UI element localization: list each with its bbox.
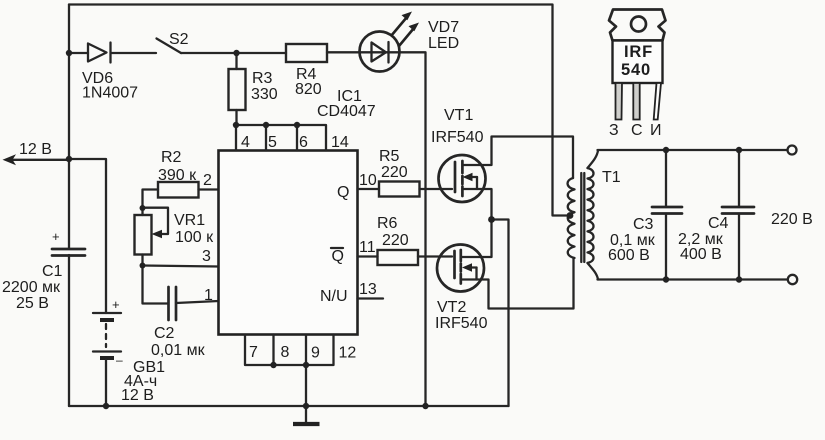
- svg-text:–: –: [116, 353, 123, 367]
- svg-text:C2: C2: [154, 325, 175, 342]
- svg-text:C1: C1: [42, 263, 63, 280]
- svg-text:S2: S2: [169, 31, 189, 48]
- svg-text:C4: C4: [708, 215, 729, 232]
- svg-text:12 В: 12 В: [19, 141, 52, 158]
- svg-text:220 В: 220 В: [771, 211, 813, 228]
- svg-text:С: С: [631, 122, 643, 139]
- svg-text:LED: LED: [428, 35, 459, 52]
- svg-text:10: 10: [359, 172, 377, 189]
- svg-text:1N4007: 1N4007: [82, 85, 138, 102]
- svg-text:IRF540: IRF540: [435, 315, 488, 332]
- svg-text:T1: T1: [602, 169, 621, 186]
- svg-text:7: 7: [249, 344, 258, 361]
- svg-text:11: 11: [359, 239, 376, 256]
- svg-text:330: 330: [251, 86, 278, 103]
- svg-text:100 к: 100 к: [175, 229, 214, 246]
- svg-text:5: 5: [268, 134, 277, 151]
- svg-text:220: 220: [382, 232, 409, 249]
- svg-text:13: 13: [359, 281, 377, 298]
- svg-text:C3: C3: [633, 216, 654, 233]
- svg-text:14: 14: [331, 134, 349, 151]
- svg-text:И: И: [650, 122, 662, 139]
- svg-text:600 В: 600 В: [608, 247, 650, 264]
- svg-text:540: 540: [621, 61, 651, 79]
- svg-text:R2: R2: [161, 149, 182, 166]
- svg-text:IRF: IRF: [624, 43, 653, 61]
- svg-text:Q: Q: [332, 248, 344, 265]
- svg-text:N/U: N/U: [320, 288, 348, 305]
- svg-text:390 к: 390 к: [158, 167, 197, 184]
- svg-text:CD4047: CD4047: [317, 103, 376, 120]
- svg-text:9: 9: [311, 345, 320, 362]
- svg-text:12: 12: [339, 345, 357, 362]
- svg-text:0,01 мк: 0,01 мк: [151, 342, 206, 359]
- svg-text:R6: R6: [377, 215, 398, 232]
- svg-text:12 В: 12 В: [121, 387, 154, 404]
- svg-text:VT2: VT2: [437, 299, 466, 316]
- svg-text:3: 3: [202, 248, 211, 265]
- svg-text:Q: Q: [337, 184, 349, 201]
- svg-text:+: +: [52, 229, 60, 244]
- svg-text:220: 220: [381, 164, 408, 181]
- svg-text:VD7: VD7: [428, 19, 459, 36]
- svg-text:6: 6: [299, 134, 308, 151]
- svg-text:820: 820: [295, 81, 322, 98]
- svg-text:4: 4: [241, 134, 250, 151]
- svg-text:R3: R3: [252, 70, 273, 87]
- svg-text:R5: R5: [379, 148, 400, 165]
- svg-text:2200 мк: 2200 мк: [2, 279, 61, 296]
- svg-text:25 В: 25 В: [16, 295, 49, 312]
- svg-text:2: 2: [203, 172, 212, 189]
- svg-text:8: 8: [281, 344, 290, 361]
- svg-text:+: +: [112, 297, 120, 312]
- svg-text:1: 1: [204, 287, 213, 304]
- svg-text:З: З: [609, 122, 619, 139]
- svg-text:IRF540: IRF540: [431, 129, 484, 146]
- svg-text:400 В: 400 В: [680, 246, 722, 263]
- svg-text:VR1: VR1: [174, 212, 205, 229]
- svg-text:VT1: VT1: [444, 107, 473, 124]
